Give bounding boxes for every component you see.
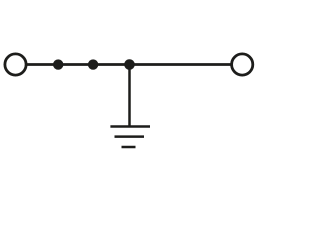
- ground: [110, 127, 150, 148]
- wire: main horizontal bus: [27, 63, 232, 66]
- terminal 2 (right connection point): [232, 54, 253, 75]
- junction dot 2: [88, 59, 98, 69]
- wire: vertical drop to ground: [128, 65, 131, 127]
- terminal 1 (left connection point): [5, 54, 26, 75]
- junction dot 1: [53, 59, 63, 69]
- node: center junction: [124, 59, 135, 70]
